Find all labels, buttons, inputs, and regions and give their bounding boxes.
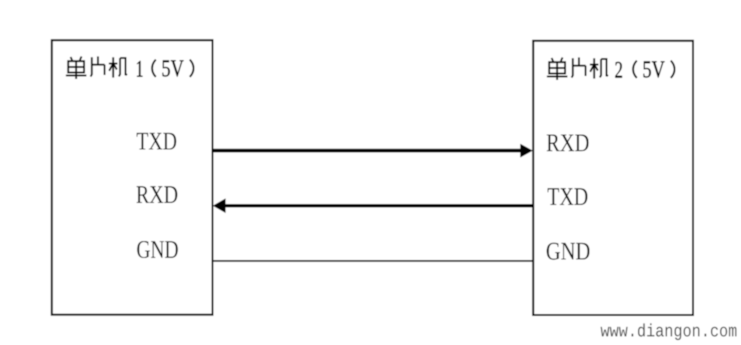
glyph JI xyxy=(109,57,127,77)
MCU1 box (left microcontroller, 5V) xyxy=(52,40,213,315)
MCU1 pin label GND xyxy=(137,241,178,258)
MCU1 pin label RXD xyxy=(137,186,178,203)
watermark www.diangon.com xyxy=(601,323,737,340)
wire TXD2 to RXD1 xyxy=(225,204,534,207)
MCU2 title 5V xyxy=(644,61,665,77)
arrowhead into RXD2 xyxy=(520,144,533,158)
MCU1 title digit 1 xyxy=(137,61,143,77)
MCU1 pin label TXD xyxy=(137,133,177,150)
GND wire xyxy=(213,260,534,262)
fullwidth left paren xyxy=(152,60,156,77)
MCU1 title 5V xyxy=(163,60,184,76)
fullwidth right paren xyxy=(190,60,194,77)
glyph PIAN xyxy=(91,56,105,76)
arrowhead into RXD1 xyxy=(213,198,226,213)
MCU2 pin label GND xyxy=(547,243,590,260)
glyph DAN xyxy=(66,57,87,80)
MCU1 title CJK glyphs "dan pian ji" + parens xyxy=(66,56,194,79)
MCU2 pin label RXD xyxy=(547,135,589,152)
MCU2 box (right microcontroller, 5V) xyxy=(533,41,693,315)
MCU2 title CJK glyphs "dan pian ji" + parens xyxy=(547,57,675,80)
MCU2 title digit 2 xyxy=(615,62,622,78)
wire TXD1 to RXD2 xyxy=(213,149,522,153)
MCU2 pin label TXD xyxy=(548,188,588,205)
